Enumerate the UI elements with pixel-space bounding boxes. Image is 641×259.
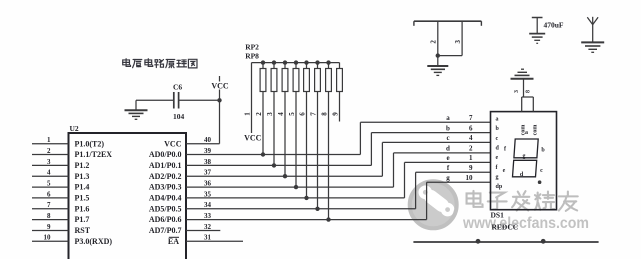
pin number 36 bbox=[204, 180, 212, 188]
ground (inverted earth) above DS1 bbox=[511, 69, 534, 79]
svg-text:7: 7 bbox=[310, 112, 318, 116]
pin label RST bbox=[75, 226, 91, 235]
wire RP element 1 to P0.0 row, junction bbox=[261, 92, 265, 157]
7-segment display DS1 (REDCC) bbox=[491, 112, 557, 232]
svg-text:P3.0(RXD): P3.0(RXD) bbox=[75, 237, 113, 246]
pin number 32 bbox=[204, 223, 212, 231]
svg-text:4: 4 bbox=[469, 134, 473, 142]
pin number RP pin 6 bbox=[299, 112, 307, 116]
svg-text:f: f bbox=[496, 165, 499, 171]
svg-text:P1.0(T2): P1.0(T2) bbox=[75, 139, 105, 148]
svg-text:5: 5 bbox=[47, 180, 51, 188]
svg-text:b: b bbox=[446, 124, 450, 132]
connector bracket (cropped component edge) bbox=[414, 21, 482, 26]
svg-text:AD0/P0.0: AD0/P0.0 bbox=[149, 150, 182, 159]
wire RP element 4 to P0.3 row, junction bbox=[294, 92, 298, 190]
svg-text:e: e bbox=[446, 154, 449, 162]
pin label P1.6 bbox=[75, 204, 90, 213]
resistor RP element 4 (pin 5) bbox=[293, 60, 299, 91]
resistor RP element 6 (pin 7) bbox=[315, 60, 321, 91]
svg-text:f: f bbox=[447, 164, 450, 172]
wire com pins tie bbox=[522, 79, 534, 97]
svg-text:3: 3 bbox=[454, 40, 462, 44]
wire bottom rail bbox=[413, 239, 598, 244]
pin label AD1/P0.1 bbox=[149, 161, 182, 170]
pin name f inside DS1 bbox=[496, 165, 499, 171]
label: circuit title 电源电路原理图 bbox=[123, 59, 197, 68]
pin label P1.5 bbox=[75, 194, 90, 203]
resistor RP element 2 (pin 3) bbox=[271, 60, 277, 91]
pin number 33 bbox=[204, 212, 212, 220]
pin label VCC bbox=[164, 139, 182, 148]
svg-text:P1.1/T2EX: P1.1/T2EX bbox=[75, 150, 113, 159]
svg-text:P1.2: P1.2 bbox=[75, 161, 90, 170]
ground (earth) below bracket bbox=[427, 56, 448, 76]
svg-text:AD6/P0.6: AD6/P0.6 bbox=[149, 215, 182, 224]
svg-text:3: 3 bbox=[514, 90, 520, 93]
svg-text:f: f bbox=[504, 147, 507, 153]
svg-text:33: 33 bbox=[204, 212, 212, 220]
wire AD4/P0.4 pin 35 to display segment e bbox=[186, 162, 491, 198]
pin number RP pin 9 bbox=[332, 112, 340, 116]
svg-text:10: 10 bbox=[44, 234, 52, 242]
svg-text:4: 4 bbox=[47, 169, 51, 177]
pin label P1.2 bbox=[75, 161, 90, 170]
svg-text:a: a bbox=[496, 117, 499, 123]
wire pin 2 drop bbox=[430, 21, 438, 55]
svg-text:9: 9 bbox=[469, 164, 473, 172]
svg-text:AD3/P0.3: AD3/P0.3 bbox=[149, 183, 182, 192]
pin name c inside DS1 bbox=[496, 136, 499, 142]
pin label EA (active low) bbox=[168, 237, 179, 246]
svg-text:REDCC: REDCC bbox=[492, 222, 519, 231]
node segment d label and pin number 2 bbox=[446, 145, 473, 153]
svg-text:2: 2 bbox=[430, 40, 438, 44]
svg-text:a: a bbox=[525, 130, 528, 136]
svg-text:1: 1 bbox=[244, 112, 252, 116]
wire pin 1 (P1.0(T2)) bbox=[32, 136, 69, 144]
wire pin 3 drop bbox=[454, 21, 462, 55]
svg-text:31: 31 bbox=[204, 234, 212, 242]
resistor RP element 7 (pin 8) bbox=[326, 60, 332, 91]
svg-text:VCC: VCC bbox=[211, 81, 229, 90]
svg-text:g: g bbox=[446, 174, 450, 182]
wire VCC pin 40 to VCC net bbox=[186, 143, 220, 145]
wire AD3/P0.3 pin 36 to display segment d bbox=[186, 153, 491, 187]
wire AD0/P0.0 pin 39 to display segment a bbox=[186, 122, 491, 154]
IC U2 (8051 MCU) bbox=[69, 124, 187, 259]
pin name a inside DS1 bbox=[496, 117, 499, 123]
pin label P1.0(T2) bbox=[75, 139, 105, 148]
svg-text:40: 40 bbox=[204, 136, 212, 144]
resistor RP element 1 (pin 2) bbox=[260, 60, 266, 91]
svg-text:3: 3 bbox=[47, 158, 51, 166]
wire RP pin 1 common to VCC bbox=[251, 63, 253, 133]
svg-text:AD5/P0.5: AD5/P0.5 bbox=[149, 204, 182, 213]
ground (earth) right bbox=[581, 42, 604, 52]
wire AD1/P0.1 pin 38 to display segment b bbox=[186, 133, 491, 166]
node segment c label and pin number 4 bbox=[446, 134, 473, 142]
capacitor C6 value 104 bbox=[173, 83, 185, 122]
pin name b inside DS1 bbox=[496, 126, 500, 132]
diode/arrow symbol (cropped) bbox=[587, 17, 598, 42]
pin label P1.3 bbox=[75, 172, 90, 181]
svg-text:g: g bbox=[523, 154, 526, 160]
svg-text:e: e bbox=[496, 155, 499, 161]
svg-text:2: 2 bbox=[47, 147, 51, 155]
svg-text:c: c bbox=[540, 168, 543, 174]
svg-text:8: 8 bbox=[321, 112, 329, 116]
pin number 37 bbox=[204, 169, 212, 177]
wire RP element 2 to P0.1 row, junction bbox=[272, 92, 276, 168]
wire RP common bus bbox=[252, 62, 340, 64]
wire pin 6 (P1.5) bbox=[32, 190, 69, 198]
wire AD6/P0.6 pin 33 to display segment g bbox=[186, 182, 491, 219]
wire pin 3 (P1.2) bbox=[32, 158, 69, 166]
resistor network RP2 / RP8 bbox=[245, 43, 259, 61]
capacitor C? 470uF (cropped) bbox=[532, 18, 564, 34]
svg-text:6: 6 bbox=[299, 112, 307, 116]
power symbol VCC (RP common) bbox=[244, 134, 262, 143]
svg-text:2: 2 bbox=[255, 112, 263, 116]
pin label P3.0(RXD) bbox=[75, 237, 113, 246]
svg-text:P1.7: P1.7 bbox=[75, 215, 90, 224]
wire stub pin 32 AD7/P0.7 bbox=[186, 230, 220, 232]
pin number 40 bbox=[204, 136, 212, 144]
svg-text:P1.3: P1.3 bbox=[75, 172, 90, 181]
svg-text:VCC: VCC bbox=[164, 139, 182, 148]
pin label AD3/P0.3 bbox=[149, 183, 182, 192]
svg-text:AD1/P0.1: AD1/P0.1 bbox=[149, 161, 182, 170]
svg-text:8: 8 bbox=[47, 212, 51, 220]
pin number RP pin 7 bbox=[310, 112, 318, 116]
wire VCC down to pin 40, junction at C6 bbox=[217, 90, 221, 144]
svg-text:39: 39 bbox=[204, 147, 212, 155]
pin number 38 bbox=[204, 158, 212, 166]
svg-text:EA: EA bbox=[168, 237, 179, 246]
svg-text:32: 32 bbox=[204, 223, 212, 231]
ground (earth) at C6 bbox=[125, 100, 148, 119]
svg-text:dp: dp bbox=[496, 184, 503, 190]
node segment b label and pin number 6 bbox=[446, 124, 473, 132]
svg-text:1: 1 bbox=[47, 136, 51, 144]
svg-text:a: a bbox=[446, 114, 450, 122]
svg-text:g: g bbox=[496, 174, 499, 180]
wire pin 2 (P1.1/T2EX) bbox=[32, 147, 69, 155]
node segment f label and pin number 9 bbox=[447, 164, 473, 172]
pin label AD7/P0.7 bbox=[149, 226, 182, 235]
svg-text:d: d bbox=[496, 145, 500, 151]
7-segment digit graphic bbox=[503, 130, 546, 184]
pin label P1.4 bbox=[75, 183, 90, 192]
node segment g label and pin number 10 bbox=[446, 174, 473, 182]
pin number RP pin 3 bbox=[266, 112, 274, 116]
svg-text:9: 9 bbox=[332, 112, 340, 116]
svg-text:37: 37 bbox=[204, 169, 212, 177]
wire pin 5 (P1.4) bbox=[32, 180, 69, 188]
svg-text:5: 5 bbox=[288, 112, 296, 116]
svg-text:2: 2 bbox=[469, 145, 473, 153]
power symbol VCC (net at pin 40) bbox=[211, 76, 229, 90]
svg-text:6: 6 bbox=[469, 124, 473, 132]
pin number RP pin 1 bbox=[244, 112, 252, 116]
svg-text:3: 3 bbox=[266, 112, 274, 116]
wire AD5/P0.5 pin 34 to display segment f bbox=[186, 172, 491, 209]
wire RP element 8 stub bbox=[339, 92, 341, 122]
wire AD2/P0.2 pin 37 to display segment c bbox=[186, 142, 491, 176]
wire pin 9 (RST) bbox=[32, 223, 69, 231]
svg-text:d: d bbox=[446, 145, 450, 153]
wire tie and junction bbox=[436, 53, 463, 57]
wire RP element 5 to P0.4 row, junction bbox=[304, 92, 308, 201]
pin label AD6/P0.6 bbox=[149, 215, 182, 224]
wire pin 8 (P1.7) bbox=[32, 212, 69, 220]
pin number RP pin 2 bbox=[255, 112, 263, 116]
svg-text:470uF: 470uF bbox=[544, 20, 564, 29]
wire pin 10 (P3.0(RXD)) bbox=[32, 234, 69, 242]
label com com bbox=[521, 125, 539, 136]
svg-text:P1.5: P1.5 bbox=[75, 194, 90, 203]
pin 3 com bbox=[514, 90, 522, 112]
pin number 31 bbox=[204, 234, 212, 242]
pin label P1.1/T2EX bbox=[75, 150, 113, 159]
svg-text:AD7/P0.7: AD7/P0.7 bbox=[149, 226, 182, 235]
pin number RP pin 4 bbox=[277, 112, 285, 116]
svg-text:1: 1 bbox=[469, 154, 473, 162]
wire RP element 6 to P0.5 row, junction bbox=[315, 92, 319, 212]
pin number 39 bbox=[204, 147, 212, 155]
svg-text:35: 35 bbox=[204, 190, 212, 198]
pin 8 com bbox=[525, 90, 533, 112]
pin number RP pin 5 bbox=[288, 112, 296, 116]
svg-text:b: b bbox=[541, 148, 545, 154]
pin number 35 bbox=[204, 190, 212, 198]
svg-text:DS1: DS1 bbox=[491, 211, 505, 220]
svg-text:P1.4: P1.4 bbox=[75, 183, 90, 192]
svg-text:www.elecfans.com: www.elecfans.com bbox=[462, 215, 589, 232]
wire pin 4 (P1.3) bbox=[32, 169, 69, 177]
svg-text:AD2/P0.2: AD2/P0.2 bbox=[149, 172, 182, 181]
pin label AD2/P0.2 bbox=[149, 172, 182, 181]
ground (earth) below 470uF bbox=[529, 34, 545, 44]
svg-text:RP2: RP2 bbox=[245, 43, 259, 52]
pin name e inside DS1 bbox=[496, 155, 499, 161]
wire stub pin 31 EA bbox=[186, 240, 243, 242]
wire RP element 7 to P0.6 row, junction bbox=[326, 92, 330, 222]
svg-text:P1.6: P1.6 bbox=[75, 204, 90, 213]
svg-text:9: 9 bbox=[47, 223, 51, 231]
svg-text:RP8: RP8 bbox=[245, 51, 259, 60]
svg-text:C6: C6 bbox=[173, 83, 182, 92]
svg-text:36: 36 bbox=[204, 180, 212, 188]
pin number 34 bbox=[204, 201, 212, 209]
svg-text:38: 38 bbox=[204, 158, 212, 166]
svg-text:10: 10 bbox=[466, 174, 474, 182]
svg-text:AD4/P0.4: AD4/P0.4 bbox=[149, 194, 182, 203]
wire C6 to VCC node bbox=[179, 99, 220, 101]
node segment e label and pin number 1 bbox=[446, 154, 473, 162]
svg-text:b: b bbox=[496, 126, 500, 132]
pin number RP pin 8 bbox=[321, 112, 329, 116]
svg-text:7: 7 bbox=[469, 114, 473, 122]
resistor RP element 3 (pin 4) bbox=[282, 60, 288, 91]
svg-text:c: c bbox=[446, 134, 449, 142]
pin label AD5/P0.5 bbox=[149, 204, 182, 213]
node segment a label and pin number 7 bbox=[446, 114, 473, 122]
pin name dp inside DS1 bbox=[496, 184, 503, 190]
svg-text:7: 7 bbox=[47, 201, 51, 209]
pin label P1.7 bbox=[75, 215, 90, 224]
svg-text:104: 104 bbox=[173, 112, 185, 121]
svg-text:RST: RST bbox=[75, 226, 91, 235]
wire RP element 3 to P0.2 row, junction bbox=[283, 92, 287, 179]
svg-text:U2: U2 bbox=[70, 124, 79, 133]
svg-text:6: 6 bbox=[47, 190, 51, 198]
svg-text:c: c bbox=[496, 136, 499, 142]
resistor RP element 8 (pin 9) bbox=[337, 63, 343, 92]
svg-text:VCC: VCC bbox=[244, 134, 262, 143]
pin name d inside DS1 bbox=[496, 145, 500, 151]
svg-text:4: 4 bbox=[277, 112, 285, 116]
resistor RP element 5 (pin 6) bbox=[304, 60, 310, 91]
wire pin 7 (P1.6) bbox=[32, 201, 69, 209]
svg-text:com: com bbox=[532, 125, 538, 136]
pin name g inside DS1 bbox=[496, 174, 499, 180]
wire ground to C6 bbox=[136, 99, 173, 101]
svg-text:e: e bbox=[503, 168, 506, 174]
svg-text:34: 34 bbox=[204, 201, 212, 209]
svg-text:8: 8 bbox=[525, 90, 531, 93]
pin label AD4/P0.4 bbox=[149, 194, 182, 203]
pin label AD0/P0.0 bbox=[149, 150, 182, 159]
